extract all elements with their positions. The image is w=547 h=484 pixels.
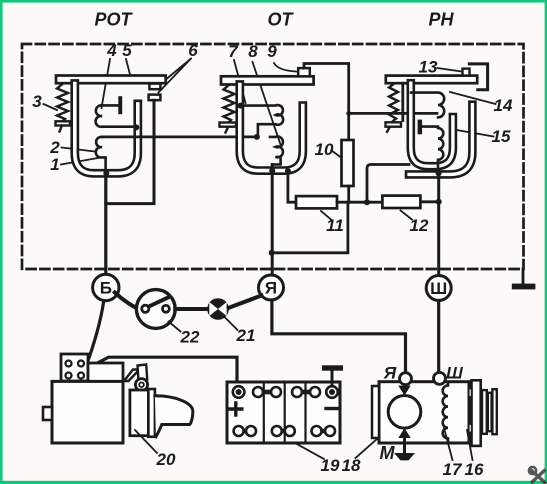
leader 1 [61, 158, 101, 165]
generator rear plate [472, 380, 481, 446]
minus sign [326, 407, 338, 410]
ОТ lower (series) winding [270, 136, 283, 164]
svg-text:9: 9 [267, 42, 277, 61]
РН fixed contact staple [469, 64, 487, 90]
battery top jumper 2 [292, 387, 320, 397]
svg-text:Я: Я [265, 279, 277, 298]
РН core (U-strip) [411, 83, 453, 166]
wire Я to generator [272, 300, 406, 373]
small junction [346, 111, 351, 116]
junction on ОТ core leg [237, 103, 243, 109]
leader 10 [332, 151, 342, 158]
ОТ fixed contact on bar [298, 68, 310, 76]
РОТ return spring [56, 84, 71, 132]
leader 3 [44, 104, 58, 110]
leader 8 [253, 62, 282, 146]
РОТ moving contact post [118, 96, 122, 114]
leader 12 [401, 211, 413, 220]
junction of РН wire on resistor net [364, 199, 370, 205]
wire ОТ core to resistor 11 [288, 171, 296, 202]
ground (right side of enclosure) [512, 269, 536, 289]
wire lamp to Я [229, 296, 262, 308]
junction at ОТ core bottom (Я wire) [269, 168, 275, 174]
junction at РН core bottom [436, 170, 442, 176]
generator armature М [388, 396, 421, 429]
svg-text:Я: Я [383, 364, 397, 383]
РН return spring [386, 84, 402, 132]
РН contact post [418, 120, 423, 135]
ОТ yoke bar [221, 76, 314, 84]
РОТ shunt winding (1,2) [96, 137, 106, 173]
wire switch to lamp [175, 307, 207, 311]
svg-text:М: М [380, 443, 396, 463]
rear plate lug top [469, 389, 472, 398]
svg-text:11: 11 [326, 216, 344, 235]
dashed enclosure of relay-regulator [22, 44, 524, 269]
РН upper winding (14) [411, 93, 444, 118]
resistor 10 [342, 140, 354, 186]
РН lower winding (15) [438, 128, 443, 171]
РОТ upper fixed contact [149, 84, 160, 90]
svg-text:16: 16 [465, 460, 484, 479]
generator ground [394, 438, 415, 460]
РН yoke bar [386, 76, 477, 84]
resistor 11 [296, 196, 337, 208]
svg-text:21: 21 [236, 326, 256, 345]
svg-text:15: 15 [492, 127, 511, 146]
starter motor body [52, 381, 123, 443]
generator terminal Я [400, 373, 412, 385]
leader 13 [438, 68, 462, 72]
battery top jumper 1 [253, 387, 281, 397]
leader 6 (two lines to contacts) [159, 59, 192, 93]
lamp 21 [207, 298, 229, 320]
РН contact block on bar [463, 69, 470, 76]
wire РН core bottom down to terminal Ш [437, 172, 440, 276]
leader 17 [444, 428, 453, 460]
svg-text:1: 1 [50, 155, 59, 174]
wire from ОТ contact to resistor 10 [304, 64, 349, 141]
svg-text:5: 5 [122, 41, 132, 60]
starter lever bracket [124, 370, 140, 382]
leader 15 [451, 129, 494, 137]
terminal Б [93, 274, 119, 300]
svg-text:17: 17 [443, 460, 463, 479]
wire РОТ winding to ОТ (long horizontal) [102, 135, 257, 138]
wire from РОТ contact down and jog [106, 100, 154, 203]
battery bottom jumper 1 [234, 426, 256, 436]
svg-text:22: 22 [180, 328, 200, 347]
junction at ОТ core bottom (resistor wire) [285, 168, 291, 174]
pulley disc 1 [482, 390, 487, 434]
leader 7 [234, 60, 246, 103]
leader 16 [467, 430, 473, 460]
leader 19 [295, 443, 324, 459]
РН armature [401, 83, 404, 120]
battery ground [322, 365, 343, 386]
svg-text:3: 3 [32, 92, 42, 111]
РОТ series winding (4) [96, 105, 137, 126]
generator frame [379, 382, 469, 443]
battery - terminal [326, 386, 338, 398]
resistor 12 [382, 196, 420, 208]
starter lever pivot [135, 379, 147, 391]
svg-text:8: 8 [248, 42, 258, 61]
ОТ core (U-strip) [240, 85, 303, 171]
ОТ upper winding [242, 105, 284, 137]
terminal Я [259, 275, 284, 300]
svg-text:18: 18 [342, 456, 361, 475]
РОТ core (U-strip) [75, 84, 138, 174]
battery bottom jumper 2 [272, 426, 295, 436]
svg-text:14: 14 [494, 96, 513, 115]
starter mount tab [43, 407, 52, 420]
leader 21 [224, 317, 238, 331]
pulley disc 2 [488, 393, 492, 431]
leader 22 [169, 322, 181, 332]
starter front plate [148, 389, 155, 437]
battery + terminal [233, 386, 245, 398]
junction resistor 12 / Ш wire [436, 199, 442, 205]
wire starter to battery + [85, 357, 237, 384]
junction on Я wire [269, 250, 275, 256]
starter solenoid terminal box [61, 354, 88, 381]
svg-text:РН: РН [428, 10, 454, 30]
leader 18 [356, 420, 400, 459]
generator upper brush [398, 386, 410, 396]
svg-text:РОТ: РОТ [94, 10, 133, 30]
leader 20 [135, 430, 157, 453]
junction winding to long wire [254, 134, 260, 140]
svg-text:ОТ: ОТ [268, 10, 295, 30]
svg-text:Ш: Ш [430, 279, 447, 298]
generator lower brush [398, 428, 410, 438]
svg-text:Б: Б [100, 279, 112, 298]
svg-text:13: 13 [419, 58, 438, 77]
wire resistor 11 to resistor 12 [337, 201, 382, 204]
leader 14 [450, 92, 496, 104]
switch 22 [136, 290, 175, 329]
generator mount tab [372, 386, 379, 438]
starter drive pinion hook [155, 396, 193, 437]
starter lever [138, 365, 148, 381]
watermark tools icon [529, 467, 546, 484]
starter drive housing [130, 390, 149, 436]
junction on core leg [133, 124, 139, 130]
wire contact post to lower winding [422, 125, 438, 128]
leader 9 (curved to contact) [274, 63, 296, 72]
battery cell dividers [264, 382, 306, 443]
РОТ lower contact [149, 95, 161, 101]
РОТ yoke bar [56, 76, 166, 84]
wire Ш to generator [437, 301, 440, 373]
wire branch to РН armature [349, 112, 437, 115]
wire РОТ core bottom down to terminal Б [104, 173, 107, 274]
generator field winding 17 [443, 382, 448, 443]
svg-text:6: 6 [188, 41, 198, 60]
wire Б to starter solenoid [85, 301, 104, 370]
generator terminal Ш [434, 372, 446, 384]
leader 11 [321, 211, 331, 220]
wire resistor 10 bottom [347, 186, 350, 202]
svg-text:Ш: Ш [446, 364, 463, 383]
ОТ return spring [220, 85, 237, 133]
battery case [227, 382, 340, 443]
pulley disc 3 [492, 389, 496, 434]
svg-text:4: 4 [106, 41, 117, 60]
wire Б to switch 22 [115, 293, 137, 309]
wire РН frame to resistor net [367, 165, 409, 203]
starter solenoid body [88, 363, 123, 381]
РН outer frame strip [409, 105, 472, 175]
battery bottom jumper 3 [312, 426, 336, 436]
svg-text:10: 10 [315, 140, 334, 159]
leader 2 [62, 148, 96, 152]
plus sign [230, 403, 242, 415]
wire resistor net down-left to Я wire [272, 202, 348, 253]
junction at core bottom [103, 170, 109, 176]
wire resistor 12 to Ш wire [420, 200, 438, 203]
terminal Ш [426, 276, 451, 301]
rear plate lug bottom [469, 424, 472, 433]
svg-text:20: 20 [156, 450, 176, 469]
leader 4 [102, 59, 111, 108]
svg-text:7: 7 [228, 42, 239, 61]
wire ОТ winding down to terminal Я [271, 165, 274, 276]
leader 5 [126, 59, 130, 75]
